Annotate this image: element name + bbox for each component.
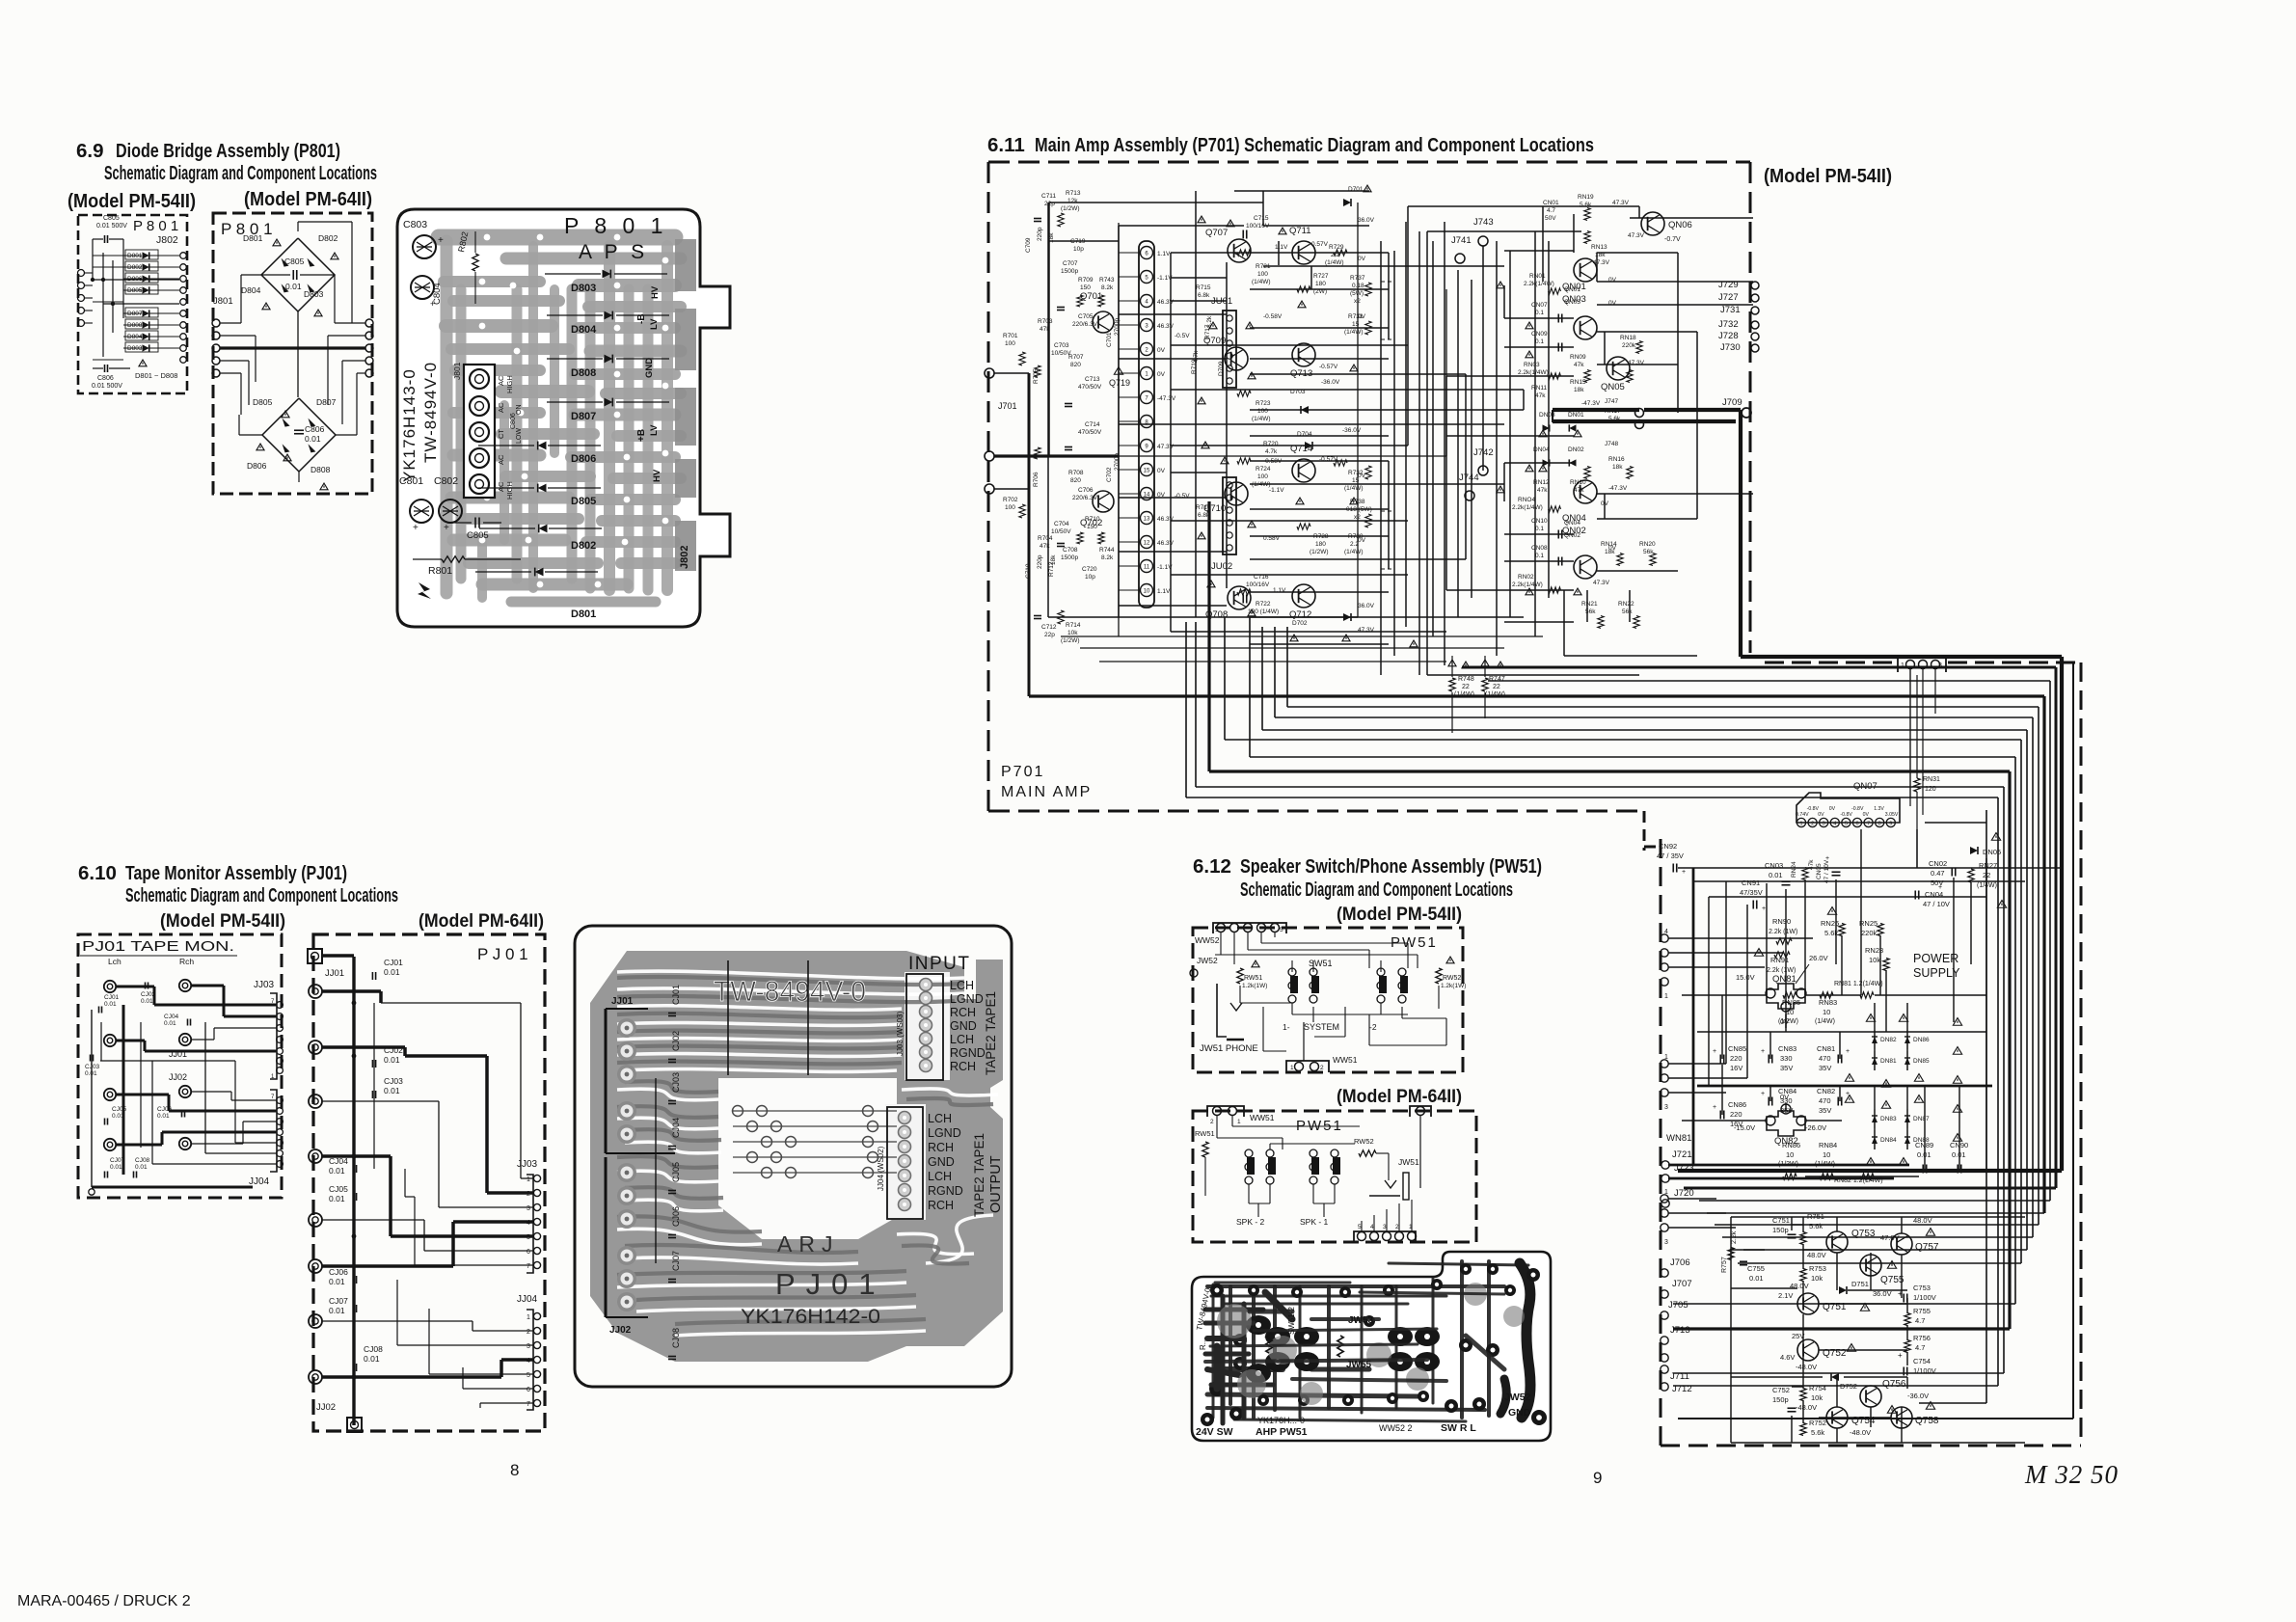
svg-text:10: 10 (1144, 589, 1150, 595)
svg-text:C720: C720 (1082, 566, 1097, 573)
svg-text:D804: D804 (241, 285, 261, 295)
svg-text:0.01: 0.01 (157, 1113, 170, 1120)
svg-text:D709: D709 (1218, 361, 1225, 376)
svg-text:2: 2 (1210, 1119, 1214, 1125)
svg-text:C806: C806 (305, 424, 325, 434)
svg-text:LV: LV (649, 424, 660, 436)
svg-text:1: 1 (1664, 993, 1668, 1000)
svg-text:D806: D806 (571, 453, 596, 465)
svg-text:JW53: JW53 (1348, 1315, 1374, 1326)
svg-text:47.3V: 47.3V (1358, 627, 1375, 634)
svg-text:2.2k(1/4W): 2.2k(1/4W) (1524, 281, 1554, 287)
svg-text:-0.8V: -0.8V (1840, 812, 1852, 818)
svg-text:J728: J728 (1718, 331, 1739, 341)
svg-text:MAIN AMP: MAIN AMP (1001, 784, 1092, 800)
tape monitor PM-54II border (78, 934, 282, 1198)
diodes on PCB with leads (603, 270, 611, 279)
svg-text:R715: R715 (1196, 284, 1211, 291)
svg-text:RW51: RW51 (1195, 1129, 1215, 1138)
transistor Q758 (1891, 1407, 1912, 1428)
svg-text:D803: D803 (127, 345, 143, 352)
PW51 PCB traces (1207, 1284, 1504, 1288)
PJ01 white cutout centre (718, 1078, 897, 1239)
PW51 misc pads (1210, 1284, 1224, 1297)
svg-text:D805: D805 (127, 287, 143, 294)
transistor Q757 (1891, 1233, 1912, 1255)
svg-text:0V: 0V (1608, 300, 1617, 307)
svg-text:Q755: Q755 (1880, 1275, 1904, 1285)
PCB P801 pad holes (484, 234, 491, 241)
svg-text:10k: 10k (1869, 956, 1880, 964)
svg-text:2.2k(1/4W): 2.2k(1/4W) (1512, 581, 1543, 588)
svg-text:8.2k: 8.2k (1206, 315, 1213, 328)
transistor Q709 (1225, 347, 1248, 370)
svg-text:5.6k: 5.6k (1811, 1428, 1824, 1437)
svg-text:D808: D808 (127, 322, 143, 329)
J701 long feed line (1119, 455, 1446, 457)
svg-text:CJ05: CJ05 (329, 1184, 348, 1194)
svg-text:820: 820 (1070, 362, 1081, 368)
warning triangle D801-D808 (139, 360, 147, 366)
svg-text:6.10: 6.10 (78, 862, 117, 884)
svg-text:0.01: 0.01 (110, 1164, 122, 1171)
svg-text:3: 3 (1664, 1104, 1668, 1111)
svg-text:(Model PM-54II): (Model PM-54II) (160, 910, 285, 932)
svg-text:1: 1 (527, 1314, 530, 1321)
svg-text:0.01: 0.01 (329, 1166, 345, 1176)
svg-text:2.2k(1/4W): 2.2k(1/4W) (1518, 369, 1549, 376)
svg-text:0.1: 0.1 (1535, 526, 1544, 532)
svg-text:C805: C805 (284, 257, 305, 266)
svg-text:JJ01: JJ01 (611, 996, 634, 1007)
svg-text:GND: GND (928, 1155, 955, 1169)
transistor Q713 (1292, 343, 1315, 366)
svg-text:C703: C703 (1054, 342, 1069, 349)
top connector bracket PW51-54 (1213, 923, 1286, 933)
svg-text:150: 150 (1080, 284, 1091, 291)
svg-text:+: + (413, 523, 419, 533)
svg-text:2.1V: 2.1V (1778, 1291, 1793, 1300)
svg-text:4.6V: 4.6V (1780, 1353, 1795, 1362)
svg-text:1500p: 1500p (1061, 268, 1078, 275)
svg-text:D803: D803 (571, 283, 596, 294)
svg-text:P J 0 1: P J 0 1 (477, 945, 528, 963)
svg-text:LCH: LCH (950, 979, 974, 992)
svg-text:CJ04: CJ04 (164, 1014, 179, 1020)
svg-text:TAPE2 TAPE1: TAPE2 TAPE1 (972, 1133, 986, 1217)
svg-text:0V: 0V (1358, 537, 1366, 544)
svg-text:R720: R720 (1263, 441, 1279, 447)
svg-text:CJ03: CJ03 (85, 1064, 100, 1070)
svg-text:DN02: DN02 (1568, 446, 1584, 453)
resistor RW52 (1436, 968, 1442, 984)
svg-text:10k: 10k (1811, 1393, 1823, 1402)
svg-text:LGND: LGND (928, 1126, 961, 1140)
svg-text:47 / 10V: 47 / 10V (1923, 900, 1950, 908)
svg-text:D807: D807 (571, 411, 596, 422)
svg-text:D807: D807 (127, 311, 143, 317)
svg-text:C803: C803 (403, 219, 427, 230)
svg-text:M 32 50: M 32 50 (2024, 1460, 2119, 1489)
tape monitor PM-64II border (313, 934, 545, 1431)
svg-text:J720: J720 (1674, 1188, 1694, 1199)
PW51 resistor footprints (1266, 1332, 1272, 1353)
svg-text:1-: 1- (1283, 1022, 1290, 1032)
svg-text:CN10: CN10 (1531, 518, 1548, 525)
svg-text:470/50V: 470/50V (1078, 429, 1102, 436)
svg-text:+: + (1761, 1048, 1765, 1055)
svg-text:11: 11 (1144, 565, 1150, 571)
svg-text:10: 10 (1786, 1150, 1794, 1159)
RCA jacks PM-54II (104, 981, 116, 992)
svg-text:RW52: RW52 (1354, 1137, 1374, 1146)
svg-text:26.0V: 26.0V (1809, 954, 1828, 962)
svg-text:JJ04: JJ04 (517, 1294, 538, 1305)
svg-text:R727: R727 (1313, 273, 1329, 280)
svg-text:CN82: CN82 (1817, 1087, 1835, 1095)
warning triangles bridge1 (273, 239, 281, 246)
svg-text:6: 6 (527, 1387, 530, 1393)
svg-text:JJ03 (WS03): JJ03 (WS03) (896, 1011, 905, 1056)
transistor Q755 (1860, 1255, 1881, 1276)
svg-text:AC: AC (497, 375, 505, 386)
svg-text:RN13: RN13 (1591, 244, 1607, 251)
switch pair 1 PM-64II (1245, 1149, 1253, 1157)
lower power mesh (1731, 1216, 2025, 1218)
svg-text:2.2k(1/4W): 2.2k(1/4W) (1512, 504, 1543, 511)
svg-text:DN01: DN01 (1568, 412, 1584, 419)
svg-text:47/35V: 47/35V (1740, 888, 1763, 897)
PW51 extra dense traces (1205, 1360, 1427, 1362)
svg-text:(1/2W): (1/2W) (1310, 549, 1329, 555)
svg-text:2: 2 (1320, 1065, 1324, 1071)
svg-text:J801: J801 (213, 296, 233, 307)
power supply border dashes (1765, 662, 1896, 664)
svg-text:RN24: RN24 (1791, 861, 1797, 878)
svg-text:AHP PW51: AHP PW51 (1256, 1426, 1308, 1438)
svg-text:0.01: 0.01 (384, 1055, 400, 1065)
svg-text:1/100V: 1/100V (1913, 1293, 1936, 1302)
svg-text:Lch: Lch (108, 957, 122, 966)
svg-text:-B: -B (636, 313, 647, 324)
svg-text:+: + (1938, 884, 1942, 891)
svg-text:WW52 2: WW52 2 (1379, 1423, 1413, 1433)
svg-text:R744: R744 (1099, 547, 1115, 554)
svg-text:10p: 10p (1073, 246, 1084, 253)
svg-text:LCH: LCH (928, 1170, 952, 1183)
svg-text:+: + (1713, 1104, 1716, 1111)
svg-text:D805: D805 (571, 496, 596, 507)
resistor RW51 (1237, 968, 1243, 984)
svg-text:-36.0V: -36.0V (1321, 379, 1340, 386)
svg-text:SW51-2: SW51-2 (1287, 1307, 1296, 1335)
svg-text:QN03: QN03 (1564, 299, 1580, 306)
svg-text:+B: +B (636, 429, 647, 442)
svg-text:47k: 47k (1574, 487, 1584, 494)
connector JJ04 PM-54II (270, 1090, 277, 1172)
svg-text:CJ01: CJ01 (671, 985, 681, 1005)
svg-text:R706: R706 (1033, 472, 1040, 487)
svg-text:CN01: CN01 (1543, 200, 1559, 206)
PW51 switch footprint pads right (1388, 1327, 1413, 1346)
svg-text:+: + (444, 523, 449, 533)
svg-text:4.7: 4.7 (1915, 1316, 1925, 1325)
connector pins right PM-64II (365, 319, 373, 327)
svg-text:Schematic Diagram and Componen: Schematic Diagram and Component Location… (104, 162, 377, 184)
svg-text:DN86: DN86 (1913, 1037, 1930, 1043)
transistor Q712 (1292, 584, 1315, 608)
svg-text:J732: J732 (1718, 319, 1739, 330)
speaker switch PM-64II border (1193, 1111, 1476, 1242)
svg-text:0.01: 0.01 (384, 1086, 400, 1095)
svg-text:J731: J731 (1720, 305, 1741, 315)
svg-text:J727: J727 (1718, 292, 1739, 303)
svg-text:3.05V: 3.05V (1885, 812, 1899, 818)
connector JU02 (1223, 477, 1236, 554)
middle diodes (1343, 199, 1351, 206)
svg-text:JW55: JW55 (1346, 1360, 1372, 1370)
svg-text:R707: R707 (1068, 354, 1084, 361)
transistor Q754 (1826, 1407, 1848, 1428)
svg-text:4.7k: 4.7k (1265, 448, 1278, 455)
svg-text:+: + (1761, 1091, 1765, 1097)
svg-text:(Model PM-64II): (Model PM-64II) (1337, 1086, 1462, 1107)
svg-text:2.2k (1W): 2.2k (1W) (1767, 967, 1796, 974)
svg-text:+: + (1846, 1048, 1850, 1055)
svg-text:47.3V: 47.3V (1628, 232, 1645, 239)
svg-text:47 / 10V: 47 / 10V (1823, 859, 1830, 883)
transistor Q707 (1228, 239, 1251, 262)
svg-text:0.01: 0.01 (384, 967, 400, 977)
svg-text:7: 7 (527, 1263, 530, 1270)
svg-text:2700p: 2700p (1114, 318, 1121, 336)
svg-text:46.3V: 46.3V (1157, 516, 1175, 523)
PCB board PJ01 outline (575, 926, 1012, 1387)
transistor Q710 (1225, 482, 1248, 505)
svg-text:CJ08: CJ08 (671, 1328, 681, 1348)
svg-text:3: 3 (1823, 822, 1825, 827)
svg-text:C705: C705 (1078, 313, 1094, 320)
PW51-54 extra wires (1215, 954, 1418, 956)
svg-text:SW R L: SW R L (1441, 1422, 1476, 1434)
middle capacitors (1242, 230, 1244, 239)
svg-text:C708: C708 (1063, 547, 1078, 554)
svg-text:0V: 0V (1829, 806, 1836, 812)
strip left stubs (1119, 252, 1140, 254)
svg-text:18k: 18k (1574, 387, 1584, 393)
svg-text:C752: C752 (1772, 1386, 1790, 1394)
svg-text:CN86: CN86 (1728, 1100, 1746, 1109)
svg-text:GND: GND (1508, 1407, 1531, 1419)
svg-text:AC: AC (497, 402, 505, 413)
svg-text:13: 13 (1144, 517, 1150, 523)
svg-text:J744: J744 (1459, 473, 1479, 483)
svg-text:C753: C753 (1913, 1284, 1931, 1292)
svg-text:0.01: 0.01 (329, 1277, 345, 1286)
diode D752 (1831, 1373, 1839, 1381)
svg-text:RN10: RN10 (1570, 479, 1586, 486)
svg-text:+: + (1825, 855, 1829, 862)
svg-text:R756: R756 (1913, 1334, 1931, 1342)
svg-text:AC: AC (497, 454, 505, 465)
tape monitor PM-64II wires (322, 954, 354, 958)
svg-text:47.3V: 47.3V (1157, 444, 1175, 450)
svg-text:7: 7 (1867, 822, 1870, 827)
svg-text:470/50V: 470/50V (1078, 384, 1102, 391)
diodes D801 D802 D806 D805 (143, 252, 149, 258)
svg-text:R703: R703 (1038, 318, 1053, 325)
svg-text:D804: D804 (127, 334, 143, 340)
svg-text:5: 5 (527, 1372, 530, 1379)
svg-text:R713: R713 (1066, 190, 1081, 197)
svg-text:(Model PM-54II): (Model PM-54II) (68, 191, 196, 212)
svg-text:6.12: 6.12 (1193, 855, 1231, 878)
svg-text:RW52: RW52 (1443, 975, 1461, 982)
svg-text:0V: 0V (1157, 468, 1166, 474)
svg-text:JJ03: JJ03 (517, 1159, 538, 1170)
PW51 switch footprint pads left (1265, 1327, 1290, 1346)
svg-text:RN03: RN03 (1524, 362, 1540, 368)
PJ01 left connector JJ02 bracket (605, 1157, 608, 1317)
svg-text:RN83: RN83 (1819, 998, 1837, 1007)
svg-text:RN22: RN22 (1618, 601, 1634, 608)
svg-text:LOW: LOW (516, 428, 523, 444)
svg-text:22p: 22p (1044, 632, 1055, 638)
svg-text:(1/2W): (1/2W) (1778, 1018, 1798, 1025)
main amp dashed border (988, 161, 1750, 164)
svg-text:CN91: CN91 (1742, 879, 1760, 887)
svg-text:8.2k: 8.2k (1101, 284, 1114, 291)
svg-text:3: 3 (527, 1343, 530, 1350)
top square connector (308, 949, 322, 963)
svg-text:C714: C714 (1085, 421, 1100, 428)
svg-text:2.2k: 2.2k (1731, 1230, 1738, 1244)
svg-text:DN83: DN83 (1880, 1116, 1897, 1122)
svg-text:JU02: JU02 (1211, 561, 1232, 572)
svg-text:JJ02: JJ02 (316, 1402, 336, 1413)
middle resistors symbols (1237, 250, 1251, 256)
svg-text:-47.3V: -47.3V (1581, 400, 1601, 407)
svg-text:(1/2W): (1/2W) (1061, 205, 1080, 212)
svg-text:RN14: RN14 (1601, 541, 1617, 548)
svg-text:J705: J705 (1668, 1300, 1688, 1311)
svg-text:6.8k: 6.8k (1198, 292, 1210, 299)
svg-text:D704: D704 (1297, 431, 1312, 438)
PJ01 left connector JJ01 bracket (605, 1009, 608, 1153)
left column resistors and caps symbols (1058, 213, 1064, 227)
svg-text:0.74V: 0.74V (1796, 812, 1809, 818)
svg-text:D808: D808 (311, 465, 331, 474)
svg-text:48.0V: 48.0V (1807, 1251, 1826, 1259)
svg-text:D801: D801 (243, 233, 263, 243)
svg-text:HV: HV (650, 285, 661, 299)
svg-text:C754: C754 (1913, 1357, 1931, 1365)
svg-text:9: 9 (1889, 822, 1892, 827)
svg-text:C704: C704 (1054, 521, 1069, 527)
svg-text:DN82: DN82 (1880, 1037, 1897, 1043)
bottom connector PM-64II (1354, 1231, 1416, 1242)
svg-text:J730: J730 (1720, 342, 1741, 353)
svg-text:RW51: RW51 (1244, 975, 1262, 982)
svg-text:P 8 0 1: P 8 0 1 (564, 213, 667, 238)
right diodes DN (1543, 424, 1550, 431)
mounting arrow (418, 582, 431, 599)
PJ01 left pads (617, 1018, 636, 1038)
svg-text:1: 1 (1215, 927, 1219, 933)
svg-text:-0.57V: -0.57V (1319, 364, 1338, 370)
svg-text:R701: R701 (1003, 333, 1018, 339)
svg-text:RGND: RGND (928, 1184, 963, 1198)
svg-text:46.3V: 46.3V (1157, 299, 1175, 306)
svg-text:47.3V: 47.3V (1593, 580, 1610, 586)
PCB P801 vertical trace columns (441, 241, 453, 593)
svg-text:-0.5V: -0.5V (1175, 333, 1190, 339)
svg-text:JJ02: JJ02 (169, 1072, 187, 1082)
diode DN05 (1970, 847, 1978, 854)
svg-text:-47.3V: -47.3V (1608, 485, 1628, 492)
svg-text:50V: 50V (1545, 215, 1556, 222)
svg-text:J802: J802 (156, 234, 178, 246)
svg-text:D801: D801 (571, 608, 596, 620)
svg-text:J801: J801 (452, 362, 462, 380)
svg-text:CN85: CN85 (1728, 1044, 1746, 1053)
svg-text:+: + (1762, 906, 1766, 912)
svg-text:5.6k: 5.6k (1580, 202, 1592, 208)
svg-text:56k: 56k (1622, 608, 1633, 615)
svg-text:-26.0V: -26.0V (1805, 1123, 1826, 1132)
svg-text:RN16: RN16 (1608, 456, 1625, 463)
wires box A (102, 253, 104, 357)
svg-text:RN02: RN02 (1518, 574, 1534, 581)
svg-text:J802: J802 (679, 546, 690, 569)
svg-text:CN02: CN02 (1929, 859, 1947, 868)
svg-text:56k: 56k (1643, 549, 1654, 555)
svg-text:RN15: RN15 (1570, 379, 1586, 386)
svg-text:C702: C702 (1106, 467, 1113, 482)
PJ01 white cutout output connector (885, 1104, 926, 1220)
PCB P801 pad rects right (675, 239, 696, 291)
svg-text:35V: 35V (1819, 1106, 1831, 1115)
svg-text:10: 10 (1823, 1150, 1830, 1159)
transistor Q701 (1093, 311, 1114, 333)
svg-text:P 8 0 1: P 8 0 1 (133, 218, 178, 234)
main amp extra mid verticals (1380, 241, 1382, 675)
svg-text:36.0V: 36.0V (1358, 603, 1375, 609)
svg-text:C701: C701 (1106, 332, 1113, 347)
svg-text:HV: HV (652, 469, 662, 482)
svg-text:10/50V: 10/50V (1051, 528, 1071, 535)
svg-text:Q753: Q753 (1851, 1229, 1876, 1239)
svg-text:220: 220 (1730, 1110, 1742, 1119)
svg-text:R747: R747 (1489, 676, 1505, 683)
transistor QN01 (1574, 258, 1597, 282)
svg-text:(5W): (5W) (1350, 290, 1364, 297)
svg-text:R752: R752 (1809, 1419, 1826, 1427)
svg-text:7: 7 (527, 1401, 530, 1408)
svg-text:CJ08: CJ08 (364, 1344, 383, 1354)
svg-text:JJ04 (WS02): JJ04 (WS02) (877, 1146, 885, 1191)
svg-text:J709: J709 (1722, 397, 1742, 408)
svg-text:1.1V: 1.1V (1273, 587, 1286, 594)
PW51-64 wires (1216, 1116, 1218, 1138)
phone jack symbol (1217, 984, 1227, 1037)
svg-text:22: 22 (1462, 684, 1470, 690)
svg-text:(1/4W): (1/4W) (1325, 259, 1344, 266)
transistor Q711 (1292, 241, 1315, 264)
svg-text:0V: 0V (1863, 812, 1870, 818)
svg-text:YK176H...-0: YK176H...-0 (1257, 1416, 1305, 1425)
svg-text:PJ01: PJ01 (775, 1267, 886, 1301)
